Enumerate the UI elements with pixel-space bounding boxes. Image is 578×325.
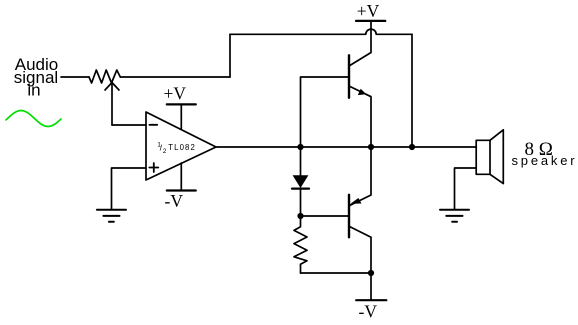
wire: R2 bottom to -V node [301, 272, 372, 274]
wire: noninverting input to ground [112, 168, 147, 210]
svg-text:-V: -V [165, 191, 184, 211]
op-amp label "1/2 TL082" [157, 141, 196, 155]
svg-text:+V: +V [357, 1, 380, 21]
transistor Q2 collector [349, 226, 371, 273]
wire: node to Q2 base [301, 215, 350, 217]
-V power rail bar (bottom) [356, 299, 386, 301]
transistor Q2 (PNP) base bar [348, 195, 350, 238]
op-amp +V supply pin [180, 105, 182, 129]
node: Q1/Q2 emitter junction [368, 144, 374, 150]
wire: audio input to potentiometer [61, 76, 89, 78]
transistor Q1 collector [349, 21, 371, 66]
svg-text:2: 2 [163, 148, 167, 155]
speaker box [476, 140, 490, 174]
ground symbol (speaker) [440, 210, 469, 222]
diode D1 triangle [293, 175, 309, 188]
wire: feedback drop to output node [411, 34, 413, 147]
transistor Q1 emitter arrowhead [358, 89, 367, 95]
output rail wire to speaker [301, 146, 477, 148]
wire: wiper to op-amp inverting input [112, 124, 146, 126]
svg-text:TL082: TL082 [168, 143, 196, 152]
transistor Q2 emitter [349, 147, 371, 206]
op-amp U1 (1/2 TL082) triangle [146, 112, 216, 180]
op-amp +V supply bar [167, 103, 196, 105]
+V power rail bar (top) [356, 20, 385, 22]
wire: top feedback run with hop over +V line [230, 29, 412, 34]
wire: pot right terminal to feedback corner [120, 76, 230, 78]
node: feedback/output junction [409, 144, 415, 150]
diode D1 cathode bar [292, 188, 309, 190]
potentiometer R1 (body zigzag) [89, 70, 120, 83]
potentiometer R1 wiper arrow [105, 83, 119, 126]
node: op-amp output junction [297, 144, 303, 150]
op-amp inverting input "-" mark [149, 124, 157, 126]
node: diode / Q2 base / R2 junction [297, 213, 303, 219]
wire: feedback vertical rise [229, 34, 231, 77]
label "Audio signal in" [14, 55, 58, 99]
wire: op-amp output to output rail [216, 146, 301, 148]
transistor Q1 emitter [349, 86, 371, 147]
transistor Q2 emitter arrowhead [350, 198, 361, 204]
sine wave (audio source icon) [6, 111, 61, 127]
speaker horn [490, 130, 503, 184]
op-amp -V supply bar [167, 189, 196, 191]
wire: node down to -V rail [370, 273, 372, 300]
ground symbol (op-amp input) [97, 210, 126, 222]
op-amp -V supply pin [180, 163, 182, 190]
wire: output node down to diode [300, 147, 302, 175]
svg-text:+V: +V [164, 84, 187, 104]
wire: diode to lower node [300, 189, 302, 216]
transistor Q1 (NPN) base bar [348, 55, 350, 98]
resistor R2 (zigzag) [294, 216, 307, 273]
wire: speaker lower terminal to ground [455, 168, 477, 210]
svg-text:in: in [27, 81, 40, 100]
op-amp noninverting input "+" mark [149, 163, 158, 172]
wire: output node up to Q1 base [301, 77, 350, 147]
svg-text:speaker: speaker [512, 153, 578, 168]
svg-text:-V: -V [359, 302, 378, 322]
node: Q2 collector / R2 / -V junction [368, 270, 374, 276]
